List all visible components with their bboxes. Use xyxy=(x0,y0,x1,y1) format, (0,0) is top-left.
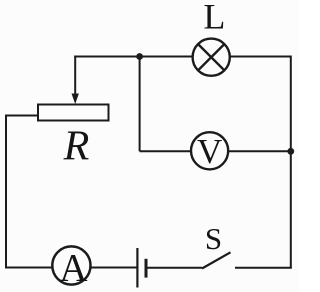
svg-text:A: A xyxy=(59,246,87,289)
svg-text:L: L xyxy=(203,0,225,37)
svg-text:S: S xyxy=(205,221,222,256)
svg-text:V: V xyxy=(197,132,222,171)
svg-text:R: R xyxy=(63,124,90,170)
